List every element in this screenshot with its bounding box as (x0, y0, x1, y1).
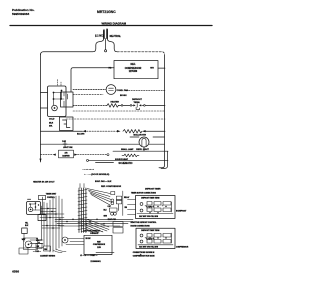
wire dashed row (73, 110, 165, 112)
cold control box (48, 86, 67, 117)
connector arrow (53, 154, 56, 156)
svg-text:— CAB —: — CAB — (33, 250, 41, 253)
junction cluster (36, 238, 42, 244)
harness bottom fan (86, 219, 109, 234)
svg-text:115V: 115V (97, 247, 102, 249)
junction ticks (64, 142, 66, 146)
svg-text:IN DEFROST: IN DEFROST (176, 211, 187, 213)
svg-text:BK-WH: BK-WH (120, 95, 127, 97)
pilot lamp dot (54, 107, 56, 109)
relay box B (61, 92, 74, 107)
svg-text:215998801: 215998801 (90, 261, 101, 263)
svg-text:BLK WHT ORG YEL BRN: BLK WHT ORG YEL BRN (139, 247, 159, 249)
wire right feed dashed run (117, 52, 164, 55)
terminal (144, 105, 146, 107)
connector arrow (83, 130, 87, 132)
svg-text:BOARD CONNECTIONS: BOARD CONNECTIONS (131, 224, 151, 227)
small relay box (22, 228, 28, 234)
svg-text:– – –•– –•– –•: – – –•– –•– –• (83, 169, 95, 171)
wire heater row to right rail (145, 104, 165, 106)
power plug cord stubs (104, 29, 107, 31)
wire dashed to damper (41, 154, 54, 156)
svg-text:6586: 6586 (12, 270, 19, 274)
condenser fan motor (106, 85, 116, 95)
bottom centre line (96, 251, 114, 253)
svg-text:DEFROST TIMER TERM: DEFROST TIMER TERM (141, 198, 160, 200)
condenser fan inner marks (109, 88, 114, 90)
box2 extra marks (145, 233, 172, 243)
wire to condenser fan (dashed) (73, 89, 106, 91)
pictorial internal wires (30, 203, 40, 210)
svg-text:COMPRESSOR RUN MODE: COMPRESSOR RUN MODE (133, 255, 156, 257)
wire compressor to right rail (158, 67, 165, 69)
switch symbol in box C (63, 120, 71, 128)
left harness cross ties (40, 214, 64, 228)
dashed stubs above cold control (58, 80, 62, 87)
mullion heater row wire (41, 130, 83, 132)
svg-text:BLK-WH: BLK-WH (77, 134, 85, 136)
left harness junction dots (43, 213, 60, 229)
svg-text:Y-BK: Y-BK (62, 141, 67, 143)
svg-text:AIR: AIR (65, 151, 69, 154)
svg-text:BLK: BLK (25, 225, 29, 227)
box2 dots (149, 237, 166, 238)
small terminal boxes (36, 244, 42, 249)
ground terminal (105, 50, 107, 52)
svg-text:MULLION HTR: MULLION HTR (134, 135, 147, 137)
svg-text:WH: WH (125, 207, 128, 209)
svg-text:TIMER BRKT: TIMER BRKT (46, 193, 57, 195)
svg-text:COMPRESSOR: COMPRESSOR (176, 247, 189, 249)
svg-text:115V/60: 115V/60 (129, 71, 138, 73)
wire left feed from plug to left rail (41, 38, 104, 55)
pictorial dots (29, 202, 39, 208)
wire compressor feed (71, 68, 114, 92)
wire dashed stub row (73, 93, 103, 95)
svg-text:HEATER IN AIR DUCT: HEATER IN AIR DUCT (33, 181, 55, 184)
svg-text:MRT21GNC: MRT21GNC (97, 10, 116, 14)
band bottom tails (53, 249, 66, 253)
svg-text:L1 — N —— COMP —: L1 — N —— COMP — (80, 255, 98, 257)
svg-text:CABINET WIRING: CABINET WIRING (40, 254, 56, 257)
terminal box 2 (136, 228, 175, 248)
svg-text:CAP: CAP (108, 205, 112, 208)
svg-text:LIGHT SW.: LIGHT SW. (63, 147, 73, 149)
connector arrow (117, 130, 121, 132)
inner right rail (161, 151, 168, 168)
bus wires (55, 219, 133, 226)
svg-text:RD BK: RD BK (86, 238, 92, 240)
box1 extra marks (145, 202, 172, 212)
small boxes below (113, 222, 123, 227)
wire full row with junction (41, 143, 140, 145)
terminal (130, 105, 132, 107)
svg-text:REF.: REF. (131, 64, 136, 66)
svg-text:BLK WHT ORG YEL BRN: BLK WHT ORG YEL BRN (139, 216, 159, 218)
wire dashed from damper (78, 154, 107, 156)
connector arrow (142, 130, 145, 132)
svg-text:DEFROST: DEFROST (132, 99, 143, 101)
svg-text:(L1 NC): (L1 NC) (95, 34, 104, 37)
light bulb lamp (139, 137, 149, 147)
svg-text:WH: WH (44, 249, 48, 251)
note line sample (96, 162, 114, 164)
left cluster top small box (39, 195, 46, 199)
svg-text:REF. COMPRESSOR: REF. COMPRESSOR (101, 186, 122, 188)
connector arrow (74, 154, 77, 156)
wire left rail (40, 55, 42, 162)
bottom-left outline box (19, 248, 28, 254)
terminal (121, 105, 123, 107)
ground wire (105, 39, 107, 50)
heater element R zigzag (107, 104, 118, 108)
svg-text:WH: WH (150, 68, 154, 70)
band to box connectors (66, 239, 84, 245)
heater element small zigzag (122, 154, 139, 157)
wires from cluster right (41, 209, 57, 215)
mullion heater element zigzag (123, 130, 142, 134)
wire right feed from plug to right rail (107, 38, 117, 52)
svg-text:DEFROST TIMER TERM: DEFROST TIMER TERM (141, 230, 160, 232)
pictorial lamp (28, 207, 32, 211)
svg-text:DEFROST TIMER: DEFROST TIMER (145, 188, 161, 190)
wire heater row (73, 104, 107, 106)
wire dashed (87, 130, 118, 132)
svg-text:• · · · – (DOOR MODELS): • · · · – (DOOR MODELS) (84, 174, 109, 176)
relay box B ticks (64, 92, 68, 107)
junction dots (53, 90, 63, 100)
svg-text:NEUTRAL: NEUTRAL (110, 35, 122, 38)
wire (123, 104, 130, 106)
wire row end terminal (87, 159, 89, 161)
terminal (107, 154, 109, 156)
wire down (118, 204, 120, 211)
pilot lamp circle (52, 105, 58, 111)
light bulb filament (142, 138, 146, 146)
svg-text:CONTROL: CONTROL (90, 233, 98, 235)
defrost thermostat (132, 104, 144, 110)
wires from motor right (24, 234, 43, 248)
compressor box (114, 61, 158, 79)
small box (110, 208, 118, 212)
left harness verticals (42, 196, 63, 252)
cold control internal wires (54, 91, 65, 106)
wire row (89, 159, 169, 161)
lower motor circle (25, 241, 32, 248)
svg-text:GRN: GRN (104, 216, 107, 218)
svg-text:COMPRESSOR: COMPRESSOR (125, 68, 142, 70)
wire short row (153, 136, 165, 138)
wire right rail (159, 55, 165, 168)
lower overlap box (38, 215, 46, 221)
wire rail to cold box (41, 92, 48, 94)
svg-text:SW.: SW. (49, 125, 53, 127)
svg-text:YEL: YEL (25, 222, 28, 224)
box1 innards (137, 202, 173, 214)
svg-text:▬▬: ▬▬ (27, 198, 31, 200)
box1 dots (149, 206, 166, 214)
wire to right rail (146, 130, 165, 132)
svg-text:RD: RD (109, 68, 113, 70)
harness hatch (78, 190, 87, 230)
relay cluster (111, 192, 115, 195)
air damper box (59, 150, 74, 158)
svg-text:HEATER: HEATER (111, 100, 120, 103)
header rule (10, 25, 212, 27)
harness top diagonals (87, 189, 112, 206)
svg-text:5995409063: 5995409063 (12, 12, 29, 16)
vertical wire from top box (41, 197, 43, 215)
svg-text:BLK: BLK (104, 210, 108, 212)
svg-text:COLD: COLD (49, 119, 55, 121)
svg-text:SMALL LAMP: SMALL LAMP (121, 148, 134, 151)
wire dots (47, 208, 52, 212)
svg-text:REFR. LIGHT: REFR. LIGHT (136, 149, 149, 151)
relay terminals (111, 199, 114, 202)
bus junction dots (59, 219, 105, 225)
box2 innards (138, 234, 173, 245)
terminal box 1 (136, 196, 176, 219)
cold control pictorial box (27, 202, 41, 215)
wire rail to cold box lower (41, 107, 48, 109)
svg-text:DAMPER: DAMPER (62, 154, 70, 157)
svg-text:TIMER MOTOR CONNECTIONS: TIMER MOTOR CONNECTIONS (131, 192, 157, 194)
wire lamp stub (143, 147, 145, 151)
wire (118, 104, 121, 106)
svg-text:RELAY: RELAY (124, 196, 130, 199)
harness motor circle (62, 237, 68, 243)
central harness bundle (79, 188, 86, 233)
wire lamp bottom row (113, 150, 168, 152)
switch box C (60, 117, 74, 131)
lower motor outline box (24, 238, 38, 250)
svg-text:GRN: GRN (36, 240, 40, 242)
svg-text:SCHEMATIC: SCHEMATIC (119, 162, 133, 165)
wire dashed row (66, 118, 165, 120)
svg-text:CONNECTIONS SHOWN IN: CONNECTIONS SHOWN IN (133, 252, 155, 254)
compressor pictorial box (84, 235, 112, 254)
left rail bottom arrow (39, 159, 41, 162)
svg-text:ADAPTIVE DEFROST CONTROL: ADAPTIVE DEFROST CONTROL (131, 221, 157, 224)
svg-text:EVAP. FAN — BLK: EVAP. FAN — BLK (95, 180, 112, 183)
bundle top stubs (80, 184, 84, 189)
power plug P1 blades (104, 30, 107, 39)
wire cond fan to right rail (126, 89, 165, 91)
relay vertical wire (122, 191, 124, 216)
svg-text:CONTROL: CONTROL (47, 197, 55, 199)
svg-text:MLR: MLR (49, 123, 54, 125)
wires to terminal boxes (128, 200, 136, 215)
